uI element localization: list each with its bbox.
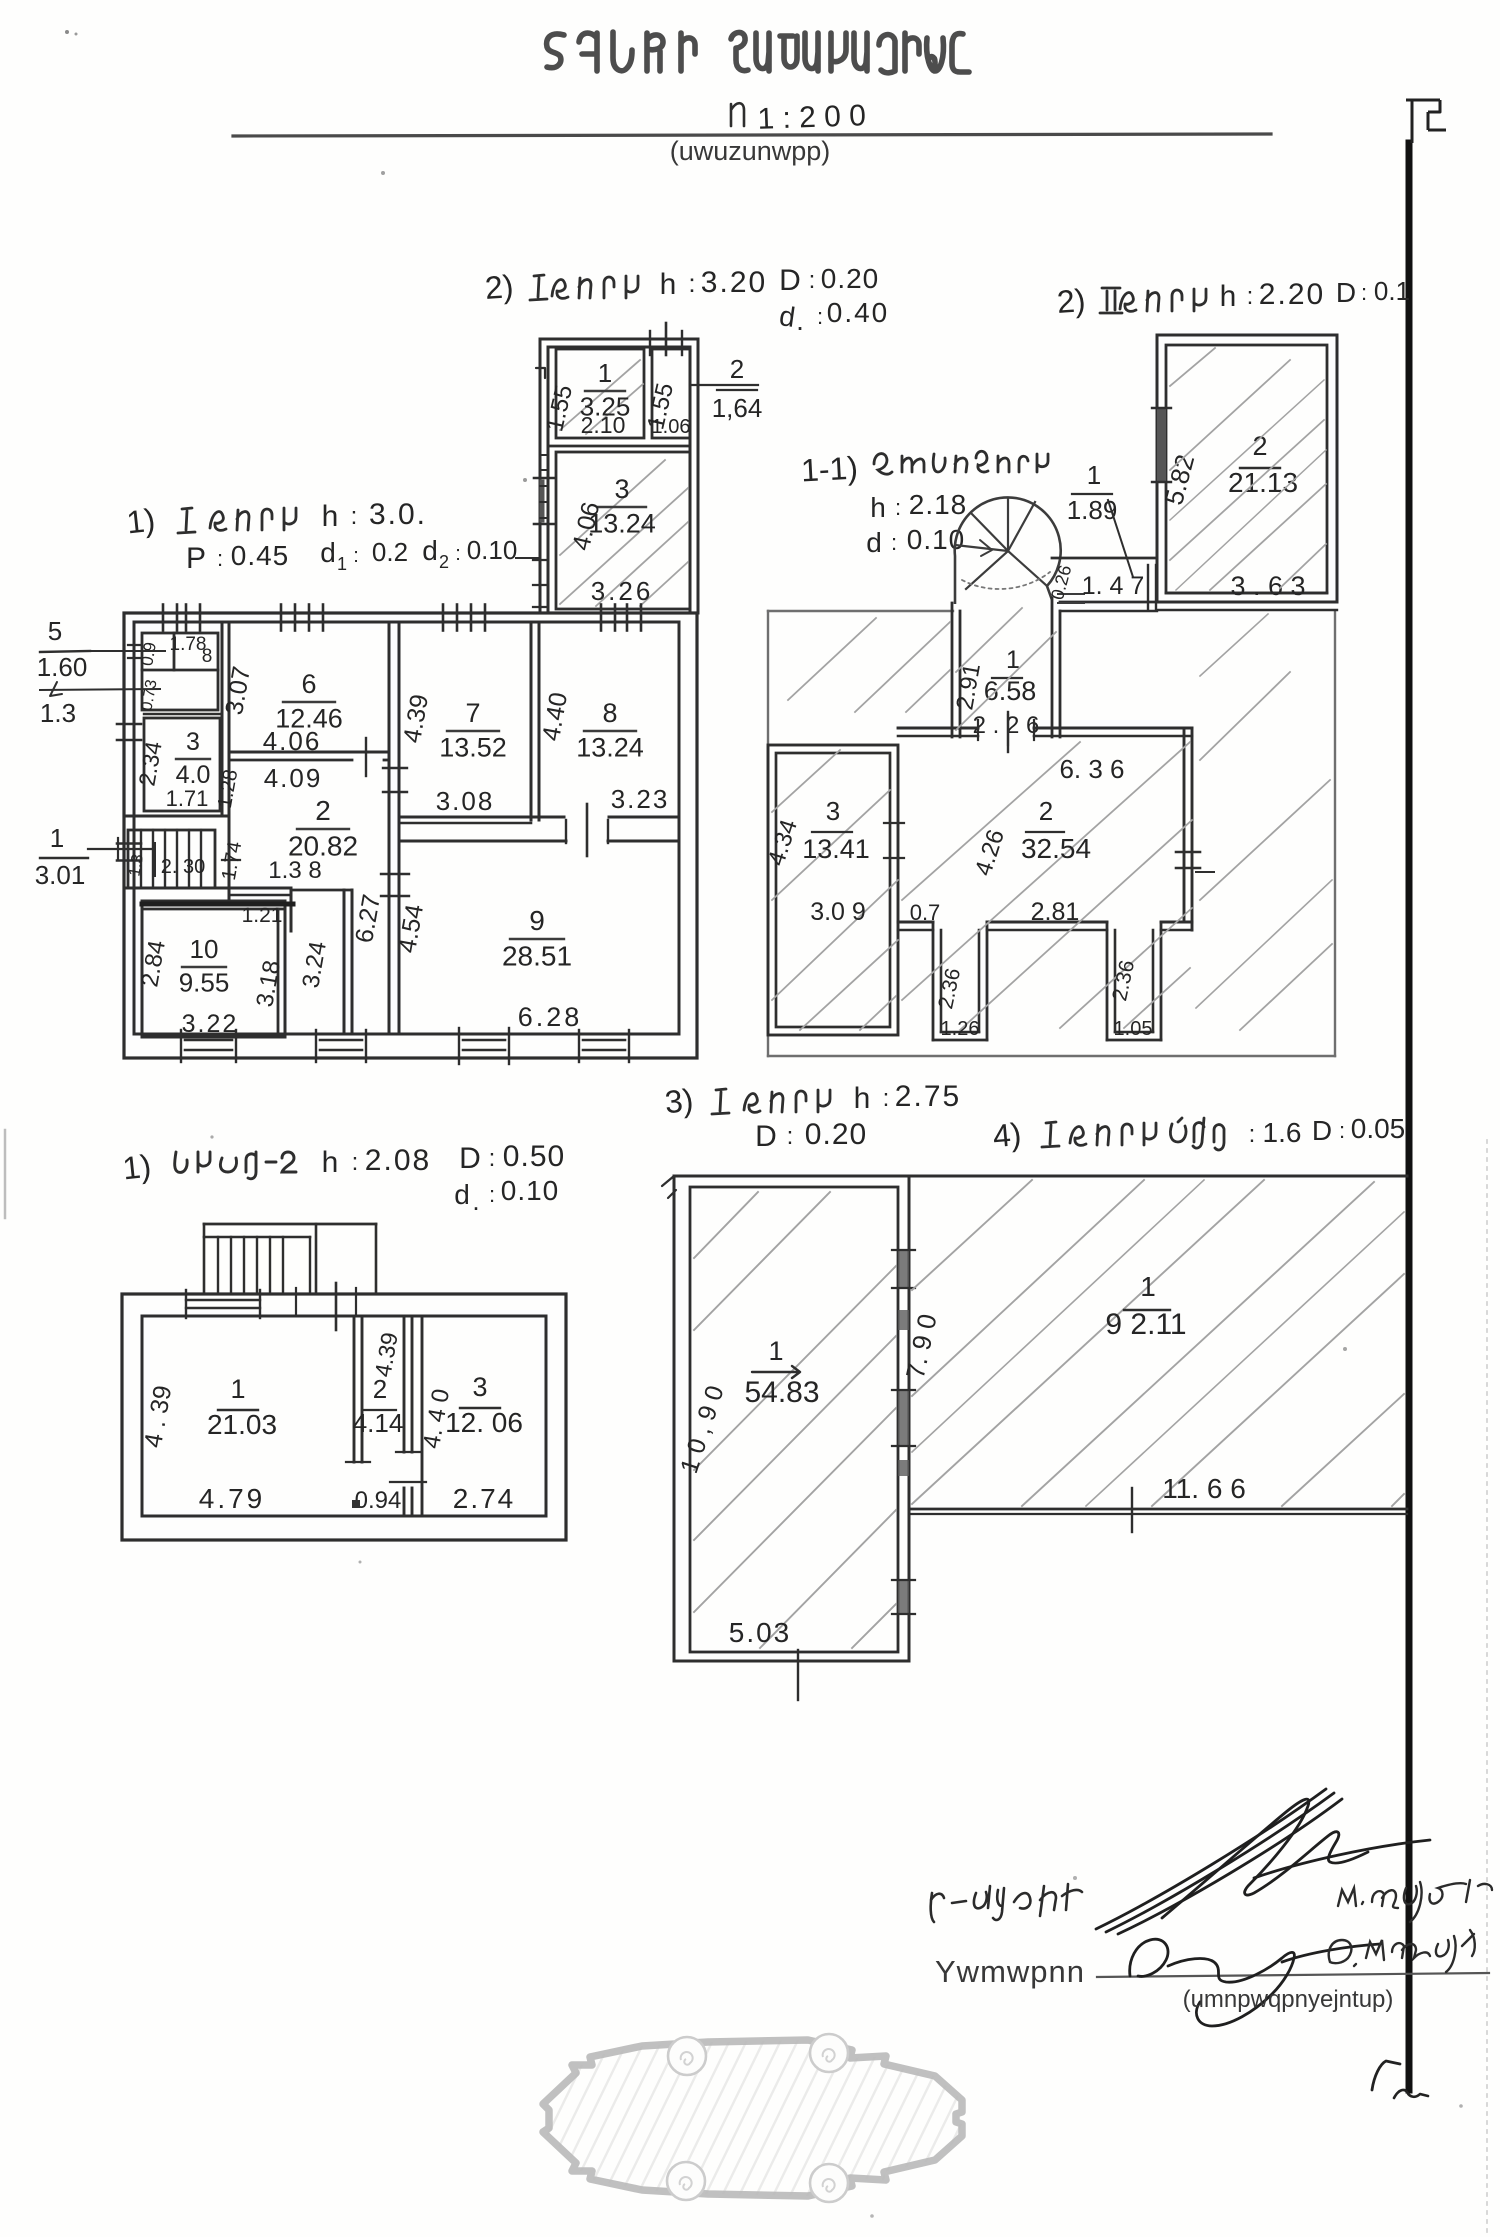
plan B labels (1158, 431, 1305, 601)
svg-text:0.10: 0.10 (501, 1175, 560, 1206)
svg-text:0.05: 0.05 (1351, 1113, 1406, 1144)
svg-text:1.21: 1.21 (242, 904, 283, 927)
svg-text:h: h (322, 1146, 339, 1179)
svg-text:28.51: 28.51 (502, 941, 572, 972)
svg-text:d: d (866, 527, 882, 558)
svg-text::: : (489, 1145, 496, 1172)
printed (mashtabe) label (670, 136, 831, 166)
svg-text:3: 3 (614, 474, 629, 504)
plan F right wall windows (892, 1250, 915, 1614)
room 3 wc box (144, 714, 220, 811)
svg-text:.: . (472, 1186, 479, 1216)
svg-text:1.71: 1.71 (166, 786, 209, 811)
svg-text:h: h (660, 268, 677, 301)
svg-text:D: D (779, 264, 801, 297)
label 0.26 and 1.47 (1047, 563, 1144, 602)
main plan bottom wall windows (181, 1028, 629, 1064)
plan E room1 labels (139, 1374, 277, 1514)
svg-text:6.58: 6.58 (984, 676, 1037, 706)
plan A door gap ticks in top wall (650, 323, 682, 355)
svg-text:0.94: 0.94 (355, 1487, 402, 1514)
svg-text:4.14: 4.14 (353, 1408, 404, 1438)
svg-text:9.55: 9.55 (179, 968, 230, 998)
svg-text:0.9: 0.9 (137, 641, 160, 668)
room 9 labels (393, 902, 582, 1032)
svg-text:h: h (322, 500, 339, 533)
svg-text:1.3 8: 1.3 8 (268, 857, 321, 884)
svg-text:3.0.: 3.0. (369, 498, 427, 531)
plan A hatch room1 (560, 360, 643, 434)
svg-text:6.28: 6.28 (518, 1002, 583, 1032)
svg-text:P: P (186, 542, 206, 575)
section header 1) I HARK h=3.0 (125, 498, 427, 540)
svg-text:1.26: 1.26 (941, 1018, 980, 1040)
svg-text:9: 9 (529, 905, 545, 936)
svg-text:4.06: 4.06 (263, 726, 322, 756)
plan G hatching (912, 1180, 1404, 1506)
stairs labels (126, 853, 205, 878)
plan A room3 labels (567, 474, 656, 606)
svg-text:h: h (1220, 280, 1237, 313)
handwritten name right of line (1329, 1930, 1475, 1972)
room 8 labels (537, 690, 669, 814)
svg-text:2.75: 2.75 (895, 1080, 961, 1113)
document title SHENKI HATAKAGITSE (Armenian block letters) (547, 32, 969, 73)
svg-text:2): 2) (484, 268, 515, 306)
plan E entrance stairs (204, 1224, 376, 1294)
svg-text:3: 3 (186, 728, 200, 756)
svg-text:3.26: 3.26 (591, 576, 654, 606)
entry vertical wall right of stairs (222, 816, 291, 931)
svg-text:4.79: 4.79 (199, 1483, 266, 1514)
svg-text:1): 1) (125, 502, 157, 541)
svg-text:1): 1) (121, 1148, 153, 1187)
svg-text:0.50: 0.50 (503, 1140, 565, 1173)
svg-text:3: 3 (826, 796, 840, 826)
corridor to plan B (1052, 558, 1157, 611)
svg-text:1: 1 (1140, 1271, 1156, 1302)
stair shaft walls (952, 598, 1060, 737)
small rooms labels (137, 634, 212, 712)
attic header d=0.10 (866, 524, 965, 558)
svg-text:0.7: 0.7 (910, 900, 941, 925)
section header 3) I HARK h=2.75 (663, 1080, 961, 1120)
svg-text:h: h (854, 1082, 871, 1115)
svg-text:d: d (454, 1179, 470, 1210)
attic hatching (772, 608, 1332, 1030)
section header 2) I HARK h=3.20 D=0.20 (484, 263, 879, 306)
horizontal rule under scale (233, 134, 1271, 136)
svg-text:21.13: 21.13 (1228, 467, 1298, 498)
attic room2 window right wall (1176, 852, 1214, 872)
attic faint outer boundary (768, 611, 1335, 1056)
svg-text:3: 3 (472, 1372, 487, 1402)
svg-text:3.01: 3.01 (35, 860, 86, 890)
shaft labels 2.91 1/6.58 2.26 (951, 646, 1039, 745)
svg-text:2 . 2 6: 2 . 2 6 (973, 712, 1040, 739)
svg-text::: : (455, 543, 461, 565)
svg-text::: : (1339, 1118, 1345, 1143)
plan E door tick top wall (296, 1283, 356, 1330)
plan E partition room1-room2 (346, 1316, 370, 1462)
svg-text:3.20: 3.20 (701, 266, 767, 299)
svg-text::: : (351, 503, 358, 530)
svg-text:1: 1 (230, 1374, 245, 1404)
svg-text:0.20: 0.20 (805, 1118, 867, 1151)
room 2 labels (214, 763, 386, 1009)
svg-text:1.05: 1.05 (1114, 1018, 1153, 1040)
plan A room2 labels (642, 381, 690, 438)
attic chimney shaft right (1107, 922, 1161, 1040)
svg-text:13.24: 13.24 (576, 733, 644, 763)
plan A window on left wall (534, 478, 554, 524)
attic room 3 walls (768, 745, 898, 1035)
svg-text:1: 1 (50, 823, 64, 853)
svg-text:0.40: 0.40 (827, 297, 890, 328)
printed Katarogh label (935, 1954, 1085, 1989)
room 6 bottom wall (229, 738, 389, 776)
svg-text:21.03: 21.03 (207, 1409, 277, 1440)
svg-text:4.09: 4.09 (264, 763, 323, 793)
svg-text:1: 1 (768, 1336, 783, 1366)
svg-text:2: 2 (1252, 431, 1267, 461)
svg-text:10: 10 (190, 934, 219, 964)
svg-text:2.74: 2.74 (453, 1483, 516, 1514)
left exterior dim 5/1.60 (37, 616, 165, 696)
svg-text::: : (891, 530, 897, 555)
label 1/1.89 with leader (1067, 460, 1133, 577)
svg-text:2.20: 2.20 (1259, 278, 1325, 311)
attic chimney labels (934, 958, 1152, 1040)
plan A small corner tick top-left (536, 368, 545, 378)
faded oval stamp outline (516, 2034, 1055, 2202)
svg-text:13.52: 13.52 (439, 733, 507, 763)
svg-text:4): 4) (991, 1116, 1022, 1154)
svg-text:3.08: 3.08 (436, 786, 495, 816)
svg-text::: : (787, 1123, 794, 1150)
bottom mark under scan line (1372, 2061, 1428, 2098)
section header 1) NKU-2 (121, 1140, 565, 1186)
room 3 wc labels (133, 728, 210, 811)
handwritten note t-42i de (931, 1884, 1082, 1922)
svg-text::: : (1249, 1121, 1256, 1148)
plan A room 2 box (narrow) (652, 349, 690, 438)
attic room3-room2 door ticks (884, 823, 904, 858)
signature rule line (1097, 1973, 1489, 1977)
section header 1-1) attic (800, 450, 1048, 489)
svg-text:8: 8 (202, 646, 213, 667)
plan E room2 labels (352, 1330, 403, 1514)
lobby wall below room3 (124, 815, 229, 818)
svg-text:32.54: 32.54 (1021, 833, 1091, 864)
svg-text:1.89: 1.89 (1067, 495, 1118, 525)
svg-text:1.3: 1.3 (40, 698, 76, 728)
svg-text:D: D (459, 1142, 481, 1175)
left exterior dim 1.3 (40, 689, 160, 728)
plan B window left wall (1152, 408, 1171, 482)
svg-text:0.2: 0.2 (372, 537, 408, 567)
svg-text:2: 2 (439, 552, 449, 572)
svg-text:8: 8 (602, 698, 617, 728)
svg-text:54.83: 54.83 (744, 1376, 819, 1409)
svg-text:2: 2 (315, 795, 331, 826)
entry door ticks left wall (88, 838, 152, 861)
header D=0.20 (755, 1118, 867, 1153)
rooms 7-8 bottom wall (399, 817, 679, 823)
spiral staircase (955, 497, 1061, 604)
svg-text:3.23: 3.23 (611, 784, 670, 814)
attic room 2 labels (910, 754, 1125, 926)
svg-text::: : (817, 304, 823, 329)
svg-text:2.08: 2.08 (365, 1144, 431, 1177)
plan E partition room2-room3 (390, 1316, 426, 1516)
svg-text::: : (1361, 280, 1367, 305)
main plan top wall windows (163, 605, 641, 631)
svg-text:(uwuzunwpp): (uwuzunwpp) (670, 136, 831, 166)
svg-text::: : (352, 1149, 359, 1176)
svg-text:2: 2 (373, 1374, 387, 1404)
svg-text::: : (809, 267, 816, 294)
attic room 3 labels (763, 796, 870, 926)
svg-text:1-1): 1-1) (800, 450, 859, 489)
room 10 box (142, 901, 293, 1037)
svg-text:2: 2 (1039, 796, 1053, 826)
plan A room 3 box (556, 452, 690, 609)
svg-text::: : (489, 1182, 495, 1207)
corridor wall right of room 10 (293, 890, 352, 1034)
plan F hatching (694, 1192, 896, 1648)
svg-text::: : (895, 495, 901, 520)
room 10 labels (136, 934, 238, 1038)
svg-text:0.1: 0.1 (1374, 276, 1410, 306)
lobby bottom wall (124, 888, 291, 895)
svg-text:1 : 2 0 0: 1 : 2 0 0 (757, 99, 867, 136)
svg-text:7: 7 (465, 698, 480, 728)
svg-text:D: D (755, 1120, 777, 1153)
door ticks on long wall middle (381, 874, 409, 896)
top right corner bracket mark (1406, 100, 1446, 143)
svg-text:9 2.11: 9 2.11 (1105, 1308, 1186, 1341)
handwritten name M. Mikoyan right (1338, 1880, 1492, 1922)
plan A left wall stub ticks (533, 455, 548, 607)
svg-text:0.10: 0.10 (467, 535, 518, 565)
plan A hatch room3 (560, 460, 688, 606)
svg-text:1: 1 (337, 554, 347, 574)
header line d.=0.40 (777, 297, 889, 336)
left exterior dim 1/3.01 (35, 823, 88, 890)
svg-text:2.18: 2.18 (909, 489, 968, 520)
wall between rooms 7 and 8 (531, 622, 539, 820)
svg-text:Ywmwpnn: Ywmwpnn (935, 1954, 1085, 1989)
plan A room2 leader and label 2/1.64 (690, 354, 762, 423)
svg-text::: : (688, 268, 695, 298)
svg-text:1.6: 1.6 (1263, 1117, 1302, 1148)
header line P=0.45 d1=0.2 d2=0.10 (186, 535, 540, 575)
main plan outer wall (124, 613, 697, 1058)
door ticks on long wall upper (383, 768, 407, 792)
plan F outer walls (662, 1176, 909, 1661)
plan F labels (675, 1311, 943, 1700)
svg-text:3.22: 3.22 (182, 1010, 239, 1038)
svg-text:(umnpwqpnyejntup): (umnpwqpnyejntup) (1183, 1986, 1394, 2013)
svg-text:6. 3 6: 6. 3 6 (1059, 754, 1124, 784)
plan E room3 labels (418, 1372, 523, 1514)
plan G boundary (674, 1176, 1407, 1532)
svg-text:2): 2) (1056, 282, 1087, 320)
faint right page edge (1486, 1140, 1488, 2237)
svg-text:1. 4 7: 1. 4 7 (1082, 572, 1145, 600)
plan A outer walls (540, 339, 698, 613)
room 6 labels (220, 664, 343, 756)
svg-text:0.45: 0.45 (231, 540, 290, 571)
svg-text:3.0 9: 3.0 9 (810, 898, 866, 926)
svg-text:1,64: 1,64 (712, 393, 763, 423)
lower signature over line (1130, 1939, 1380, 2026)
svg-text:2.10: 2.10 (581, 412, 626, 438)
plan E window top wall (186, 1290, 260, 1318)
svg-text:.: . (796, 305, 804, 336)
svg-text::: : (217, 546, 223, 571)
svg-text:4.0: 4.0 (176, 761, 211, 789)
svg-text:2.81: 2.81 (1031, 898, 1080, 926)
svg-text::: : (1247, 283, 1254, 310)
svg-text:1: 1 (1087, 460, 1101, 490)
svg-text:D: D (1312, 1115, 1332, 1146)
section header 2) II HARK h=2.20 D=0.1 (1056, 276, 1410, 320)
plan A room1 labels (541, 358, 630, 438)
svg-text:5: 5 (48, 616, 62, 646)
svg-text::: : (883, 1085, 890, 1112)
svg-text:2. 30: 2. 30 (161, 856, 205, 878)
svg-text:d: d (422, 535, 438, 566)
plan B outer walls (1157, 335, 1337, 610)
plan E header d.=0.10 (454, 1175, 559, 1216)
svg-text:1.60: 1.60 (37, 652, 88, 682)
plan G labels (1105, 1271, 1245, 1504)
svg-text:D: D (1336, 277, 1356, 308)
svg-text:11. 6 6: 11. 6 6 (1162, 1473, 1246, 1504)
attic header h=2.18 (870, 489, 967, 523)
room 7 labels (398, 692, 507, 816)
faint left page edge mark (4, 1130, 7, 1218)
svg-text:3): 3) (663, 1082, 694, 1120)
stairs main plan (128, 830, 215, 888)
svg-text::: : (353, 545, 359, 567)
svg-text:1.06: 1.06 (652, 416, 691, 438)
main plan left wall window (117, 724, 141, 740)
plan A room 1 box (556, 349, 644, 438)
svg-text:h: h (870, 492, 886, 523)
printed storagrutyun label (1183, 1986, 1394, 2013)
attic chimney shaft left (933, 922, 987, 1040)
small rooms block top-left (128, 633, 218, 710)
thick vertical scan line right side (1406, 143, 1413, 2090)
svg-text:5.03: 5.03 (729, 1617, 792, 1648)
attic room 2 walls (898, 712, 1192, 930)
svg-text:6: 6 (301, 669, 316, 699)
svg-text:0.20: 0.20 (821, 263, 880, 294)
svg-text:1: 1 (598, 358, 612, 388)
section header 4) I HARK (991, 1113, 1405, 1154)
svg-text:2: 2 (730, 354, 744, 384)
svg-text:12. 06: 12. 06 (445, 1407, 523, 1438)
large signature upper (1096, 1789, 1430, 1934)
plan B hatching (1170, 348, 1326, 590)
room 9 top wall with door (399, 804, 679, 856)
svg-text:13.41: 13.41 (802, 834, 870, 864)
plan E outer walls thick (122, 1294, 566, 1540)
plan A rooms bottom wall (548, 445, 690, 448)
svg-text:d: d (320, 537, 336, 568)
wall between small rooms block and room 6 (222, 622, 229, 816)
wall between rooms 6-7 and room2-room9 (long vertical) (389, 622, 399, 1034)
handwritten scale M 1:200 (731, 99, 866, 136)
